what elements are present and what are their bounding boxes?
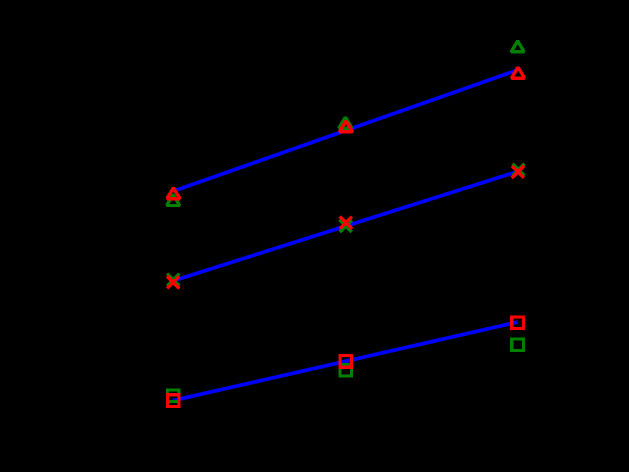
green x marker 1: [167, 274, 179, 286]
red x marker 2: [340, 217, 352, 229]
green x marker 2: [340, 220, 352, 232]
blue fit line 3 (squares): [173, 322, 518, 401]
green square marker 2: [340, 364, 352, 376]
red square marker 2: [340, 355, 352, 367]
red triangle marker 2: [339, 121, 352, 132]
green x marker 3: [512, 164, 524, 176]
green triangle marker 1: [167, 195, 180, 206]
red triangle marker 1: [167, 188, 180, 199]
red square marker 1: [167, 395, 179, 407]
red x marker 1: [167, 276, 179, 288]
blue fit line 1 (triangles): [173, 70, 517, 191]
green triangle marker 2: [339, 117, 352, 128]
green triangle marker 3: [511, 41, 524, 52]
blue fit line 2 (x markers): [174, 171, 518, 280]
red square marker 3: [512, 317, 524, 329]
green square marker 1: [167, 390, 179, 402]
green square marker 3: [512, 339, 524, 351]
red triangle marker 3: [512, 67, 525, 78]
red x marker 3: [512, 166, 524, 178]
